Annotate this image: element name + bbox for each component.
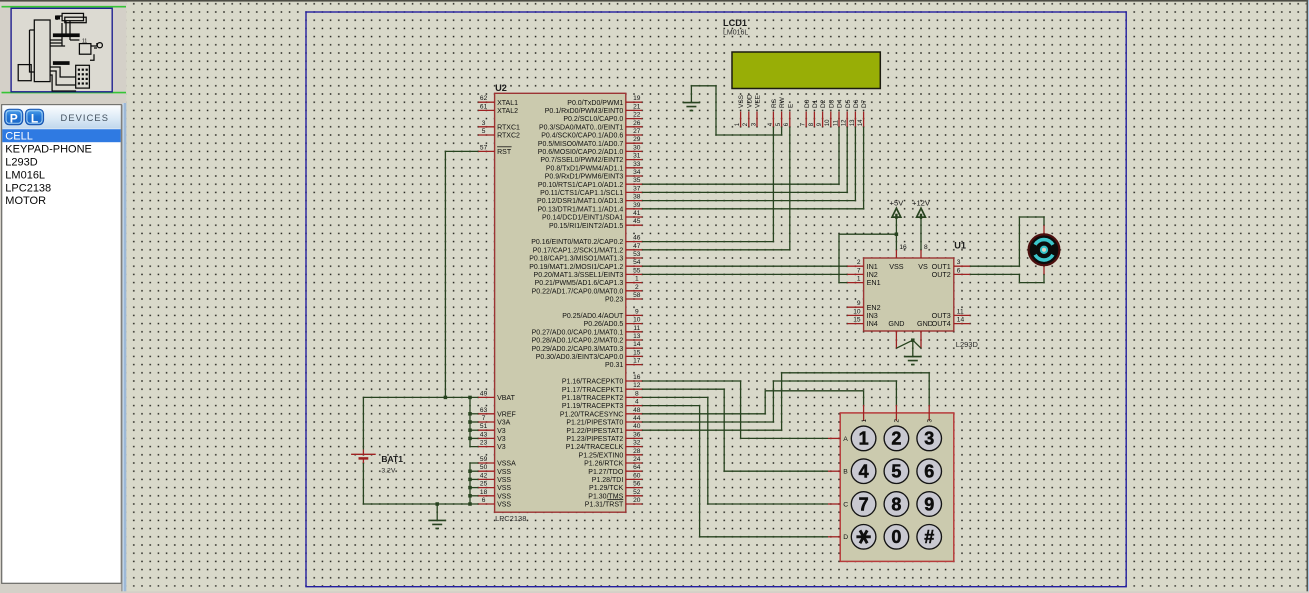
svg-text:P0.20/MAT1.3/SSEL1/EINT3: P0.20/MAT1.3/SSEL1/EINT3 [534,272,624,279]
svg-text:4: 4 [859,462,869,482]
svg-text:P1.25/EXTIN0: P1.25/EXTIN0 [579,452,624,459]
svg-text:GND: GND [888,319,904,328]
svg-text:15: 15 [853,317,861,324]
U2 pin 47 (P0.17/CAP1.2/SCK1/MAT1.2) right stub [626,249,642,251]
U2 pin 38 (P0.12/DSR1/MAT1.0/AD1.3) right stub [626,200,642,202]
svg-text:LM016L: LM016L [723,30,748,37]
keypad row pin A [828,437,840,439]
svg-text:56: 56 [633,481,641,488]
+12V power terminal [917,208,926,217]
svg-text:P0.2/SCL0/CAP0.0: P0.2/SCL0/CAP0.0 [563,116,623,123]
svg-text:16: 16 [899,244,907,251]
svg-text:34: 34 [633,169,641,176]
svg-text:KEYPAD-PHONE: KEYPAD-PHONE [5,144,92,156]
U2 pin 24 (P1.26/RTCK) right stub [626,462,642,464]
svg-text:5: 5 [891,462,901,482]
svg-text:P0.15/RI1/EINT2/AD1.5: P0.15/RI1/EINT2/AD1.5 [549,223,623,230]
U2 pin 64 (P1.27/TDO) right stub [626,470,642,472]
svg-text:D7: D7 [861,99,868,108]
U2 pin 37 (P0.11/CTS1/CAP1.1/SCL1) right stub [626,191,642,193]
svg-text:A: A [843,436,848,443]
svg-text:#: # [924,527,934,547]
svg-text:14: 14 [957,317,965,324]
U2 pin 2 (P0.22/AD1.7/CAP0.0/MAT0.0) right stub [626,290,642,292]
svg-text:LPC2138: LPC2138 [495,514,526,523]
svg-text:P0.25/AD0.4/AOUT: P0.25/AD0.4/AOUT [562,313,624,320]
U2 pin 8 (P1.18/TRACEPKT2) right stub [626,396,642,398]
svg-text:63: 63 [480,407,488,414]
U1 pin 14 (OUT4) right stub [954,323,970,325]
svg-text:14: 14 [633,341,641,348]
svg-text:U2: U2 [495,83,507,93]
battery BAT1 symbol [362,450,364,455]
U2 pin 45 (P0.15/RI1/EINT2/AD1.5) right stub [626,224,642,226]
ground symbol near LCD [683,103,700,111]
svg-text:XTAL2: XTAL2 [497,108,518,115]
svg-text:DEVICES: DEVICES [61,113,110,123]
U1 pin 1 (EN1) left stub [847,282,863,284]
svg-text:VS: VS [918,262,928,271]
svg-text:P0.31: P0.31 [605,362,623,369]
U2 pin 4 (P1.19/TRACEPKT3) right stub [626,405,642,407]
svg-text:3.2V: 3.2V [381,468,395,475]
keypad button 8 [884,492,909,517]
U1 pin 9 (EN2) left stub [847,306,863,308]
U2 pin 1 (P0.21/PWM5/AD1.6/CAP1.3) right stub [626,282,642,284]
svg-text:D: D [843,534,848,541]
keypad row pin B [828,470,840,472]
LCD1 pin 9 (D2) [822,112,824,127]
svg-text:RTXC1: RTXC1 [497,124,520,131]
U2 pin 23 (V3) left stub [478,446,494,448]
svg-text:P0.23: P0.23 [605,297,623,304]
svg-text:11: 11 [633,325,640,332]
svg-text:P0.30/AD0.3/EINT3/CAP0.0: P0.30/AD0.3/EINT3/CAP0.0 [536,354,624,361]
U2 pin 29 (P0.5/MISO0/MAT0.1/AD0.7) right stub [626,142,642,144]
keypad button 4 [851,459,876,484]
motor pin stub bottom [1043,266,1045,274]
svg-text:P1.19/TRACEPKT3: P1.19/TRACEPKT3 [562,403,624,410]
U2 pin 6 (VSS) left stub [478,503,494,505]
svg-text:22: 22 [633,112,641,119]
svg-text:RST: RST [497,149,512,156]
svg-text:VSSA: VSSA [497,461,516,468]
svg-text:E: E [787,103,794,108]
svg-text:18: 18 [480,489,488,496]
svg-text:6: 6 [957,267,961,274]
svg-text:15: 15 [633,349,641,356]
U2 pin 17 (P0.31) right stub [626,364,642,366]
keypad KEYPAD-PHONE body [840,413,954,562]
svg-text:V3: V3 [497,444,506,451]
selected device CELL [2,129,120,142]
svg-text:55: 55 [633,267,641,274]
U2 pin 32 (P1.24/TRACECLK) right stub [626,446,642,448]
svg-text:24: 24 [633,456,641,463]
LCD1 pin 3 (VEE) [756,112,758,127]
wire LCD RS to U2 P0.16 [642,127,773,242]
vertical bus wire VSSA/VSS [470,463,478,504]
wire U2 P1.17 to keypad row B [642,389,828,471]
P (pick device) button [5,109,23,125]
svg-text:P0.13/DTR1/MAT1.1/AD1.4: P0.13/DTR1/MAT1.1/AD1.4 [537,206,623,213]
wire LCD RW to ground [691,86,781,135]
LCD1 pin 10 (D3) [830,112,832,127]
svg-text:LM016L: LM016L [5,169,45,181]
svg-text:5: 5 [482,128,486,135]
svg-text:8: 8 [635,390,639,397]
svg-text:P0.10/RTS1/CAP1.0/AD1.2: P0.10/RTS1/CAP1.0/AD1.2 [538,182,624,189]
wire U2 P1.21 to keypad column 2 [642,381,896,422]
U2 pin 61 (XTAL2) left stub [478,109,494,111]
svg-text:11: 11 [82,39,87,45]
U2 pin 35 (P0.10/RTS1/CAP1.0/AD1.2) right stub [626,183,642,185]
U2 pin 54 (P0.19/MAT1.2/MOSI1/CAP1.2) right stub [626,265,642,267]
svg-text:U1: U1 [954,241,966,251]
svg-text:61: 61 [480,103,488,110]
LCD1 pin 14 (D7) [863,112,865,127]
U2 pin 51 (V3) left stub [478,429,494,431]
svg-text:GND: GND [917,319,933,328]
svg-text:LCD1: LCD1 [723,18,747,28]
U1 pin 7 (IN2) left stub [847,273,863,275]
U2 pin 42 (VSS) left stub [478,478,494,480]
svg-text:P0.28/AD0.1/CAP0.2/MAT0.2: P0.28/AD0.1/CAP0.2/MAT0.2 [532,338,624,345]
U2 pin 25 (VSS) left stub [478,487,494,489]
U2 pin 56 (P1.29/TCK) right stub [626,487,642,489]
svg-text:16: 16 [633,374,641,381]
bus branch wire [470,495,478,497]
top window edge [0,0,1309,2]
svg-text:40: 40 [633,423,641,430]
svg-text:P0.19/MAT1.2/MOSI1/CAP1.2: P0.19/MAT1.2/MOSI1/CAP1.2 [529,264,623,271]
svg-text:25: 25 [480,481,488,488]
svg-text:9: 9 [924,494,934,514]
svg-text:OUT4: OUT4 [932,319,951,328]
svg-text:P0.3/SDA0/MAT0..0/EINT1: P0.3/SDA0/MAT0..0/EINT1 [539,124,623,131]
U2 pin 62 (XTAL1) left stub [478,101,494,103]
svg-text:OUT2: OUT2 [932,270,951,279]
wire U2 P1.18 to keypad row C [642,397,828,504]
motor body [1029,234,1060,265]
svg-text:VSS: VSS [497,493,511,500]
U1 pin 11 (OUT3) right stub [954,314,970,316]
wire +5V to U1 VSS pin [895,217,897,250]
wire U2 RST to battery net [445,151,478,397]
svg-text:D4: D4 [837,99,844,108]
keypad row pin C [828,503,840,505]
U2 pin 11 (P0.27/AD0.0/CAP0.1/MAT0.1) right stub [626,331,642,333]
svg-text:21: 21 [633,103,641,110]
svg-text:P0.6/MOSI0/CAP0.2/AD1.0: P0.6/MOSI0/CAP0.2/AD1.0 [538,149,624,156]
bus branch wire [470,429,478,431]
svg-text:D5: D5 [845,99,852,108]
U2 pin 53 (P0.18/CAP1.3/MISO1/MAT1.3) right stub [626,257,642,259]
svg-text:IN4: IN4 [867,319,878,328]
junction dot ground tap [435,502,439,506]
svg-text:45: 45 [633,218,641,225]
svg-text:P0.26/AD0.5: P0.26/AD0.5 [584,321,624,328]
svg-text:37: 37 [633,185,641,192]
svg-text:47: 47 [633,243,641,250]
svg-text:P1.17/TRACEPKT1: P1.17/TRACEPKT1 [562,387,624,394]
svg-text:9: 9 [857,300,861,307]
svg-text:23: 23 [480,440,488,447]
U1 pin 3 (OUT1) right stub [954,265,970,267]
svg-text:3: 3 [924,429,934,449]
svg-text:2: 2 [894,419,901,423]
keypad column pin 3 [928,405,930,421]
svg-text:EN1: EN1 [867,278,881,287]
wire U1 OUT1 to motor top [970,217,1044,266]
svg-text:6: 6 [482,497,486,504]
svg-text:59: 59 [480,456,488,463]
svg-text:P0.5/MISO0/MAT0.1/AD0.7: P0.5/MISO0/MAT0.1/AD0.7 [538,141,624,148]
U2 pin 40 (P1.22/PIPESTAT1) right stub [626,429,642,431]
svg-text:P1.23/PIPESTAT2: P1.23/PIPESTAT2 [566,436,623,443]
svg-text:+12V: +12V [912,199,931,208]
svg-text:V3A: V3A [497,420,511,427]
svg-text:35: 35 [633,177,641,184]
junction dot VSS bus [468,502,472,506]
svg-text:RTXC2: RTXC2 [497,133,520,140]
+5V power terminal [892,208,901,217]
U2 pin 31 (P0.7/SSEL0/PWM2/EINT2) right stub [626,159,642,161]
svg-text:33: 33 [633,161,641,168]
object selector list box [2,105,122,584]
svg-text:46: 46 [633,235,641,242]
LCD1 pin 4 (RS) [772,112,774,127]
svg-text:44: 44 [633,415,641,422]
LCD1 pin 2 (VDD) [748,112,750,127]
svg-text:LPC2138: LPC2138 [5,182,51,194]
svg-text:MOTOR: MOTOR [5,195,46,207]
svg-text:38: 38 [633,194,641,201]
motor driver U1 L293D body [864,258,954,331]
U2 pin 3 (RTXC1) left stub [478,126,494,128]
svg-text:29: 29 [633,136,641,143]
ground symbol below battery net [436,504,438,520]
svg-text:48: 48 [633,407,641,414]
LCD1 pin 7 (D0) [805,112,807,127]
svg-text:42: 42 [480,472,488,479]
keypad button 0 [884,525,909,550]
svg-text:20: 20 [633,497,641,504]
keypad button # [917,525,942,550]
svg-text:8: 8 [891,494,901,514]
wire U2 P1.19 to keypad row D [642,406,828,537]
svg-text:VSS: VSS [497,485,511,492]
svg-text:C: C [843,501,848,508]
svg-text:P: P [10,111,18,125]
U2 pin 41 (P0.14/DCD1/EINT1/SDA1) right stub [626,216,642,218]
U2 pin 50 (VSS) left stub [478,470,494,472]
U2 pin 59 (VSSA) left stub [478,462,494,464]
svg-text:19: 19 [633,95,641,102]
keypad button 6 [917,459,942,484]
svg-text:D3: D3 [828,99,835,108]
motor pin stub top [1043,225,1045,233]
U2 pin 22 (P0.2/SCL0/CAP0.0) right stub [626,118,642,120]
bus branch wire [470,413,478,415]
svg-text:9: 9 [635,308,639,315]
U1 GND pin bottom stub 2 [920,331,922,348]
LCD1 pin 11 (D4) [838,112,840,127]
U2 pin 46 (P0.16/EINT0/MAT0.2/CAP0.2) right stub [626,241,642,243]
svg-text:P1.20/TRACESYNC: P1.20/TRACESYNC [560,411,623,418]
svg-text:P1.27/TDO: P1.27/TDO [588,469,624,476]
U1 pin 6 (OUT2) right stub [954,273,970,275]
svg-text:2: 2 [891,429,901,449]
svg-text:32: 32 [633,440,641,447]
svg-text:P0.21/PWM5/AD1.6/CAP1.3: P0.21/PWM5/AD1.6/CAP1.3 [535,280,624,287]
svg-text:P0.8/TxD1/PWM4/AD1.1: P0.8/TxD1/PWM4/AD1.1 [546,165,624,172]
wire battery+ lead [362,397,364,449]
svg-text:10: 10 [825,119,831,126]
vertical bus wire VREF/V3A/V3 [470,397,478,446]
svg-text:13: 13 [850,119,856,126]
wire +12V to U1 VS pin [920,217,922,250]
keypad button * [851,525,876,550]
svg-text:53: 53 [633,251,641,258]
U1 pin 15 (IN4) left stub [847,323,863,325]
U2 pin 57 (RST) left stub [478,150,494,152]
svg-text:VSS: VSS [738,94,745,108]
keypad column pin 2 [895,405,897,421]
svg-text:RS: RS [771,98,778,108]
svg-text:B: B [843,469,848,476]
svg-text:VSS: VSS [497,477,511,484]
LCD1 pin 8 (D1) [813,112,815,127]
svg-text:BAT1: BAT1 [381,454,403,464]
miniature schematic in preview [18,13,102,91]
svg-text:64: 64 [633,464,641,471]
svg-text:2: 2 [857,259,861,266]
svg-text:50: 50 [480,464,488,471]
svg-text:12: 12 [842,119,848,126]
U2 pin 52 (P1.30/TMS) right stub [626,495,642,497]
U2 pin 30 (P0.6/MOSI0/CAP0.2/AD1.0) right stub [626,150,642,152]
svg-text:P1.31/TRST: P1.31/TRST [585,502,624,509]
svg-text:P0.11/CTS1/CAP1.1/SCL1: P0.11/CTS1/CAP1.1/SCL1 [540,190,623,197]
bus branch wire [470,437,478,439]
bus branch wire [470,421,478,423]
svg-text:3: 3 [482,120,486,127]
LCD1 pin 12 (D5) [846,112,848,127]
sidebar splitter [121,105,122,593]
wire U2 P0.19 to U1 IN1 [642,265,847,267]
svg-text:VSS: VSS [889,262,904,271]
bus branch wire [470,478,478,480]
U1 GND pin bottom stub 1 [895,331,897,348]
svg-text:52: 52 [633,489,641,496]
U2 pin 21 (P0.1/RxD0/PWM3/EINT0) right stub [626,109,642,111]
keypad button 1 [851,426,876,451]
svg-text:58: 58 [633,292,641,299]
schematic sheet border frame [306,12,1126,587]
svg-text:P1.24/TRACECLK: P1.24/TRACECLK [566,444,624,451]
keypad button 3 [917,426,942,451]
wire U1 GND pins to ground junction [896,340,921,348]
U2 pin 18 (VSS) left stub [478,495,494,497]
ground symbol below U1 [904,357,921,365]
U2 pin 39 (P0.13/DTR1/MAT1.1/AD1.4) right stub [626,208,642,210]
svg-text:4: 4 [635,399,639,406]
keypad button 9 [917,492,942,517]
junction dot VBAT bus [468,396,472,400]
wire U2 P1.22 to keypad column 3 [642,373,929,430]
svg-text:CELL: CELL [5,131,33,143]
svg-text:3: 3 [926,419,933,423]
U2 pin 13 (P0.28/AD0.1/CAP0.2/MAT0.2) right stub [626,339,642,341]
U2 pin 43 (V3) left stub [478,437,494,439]
U2 pin 33 (P0.8/TxD1/PWM4/AD1.1) right stub [626,167,642,169]
wire battery- to U2 VSS [363,463,478,504]
bus branch wire [470,470,478,472]
bus branch wire [470,487,478,489]
bottom window edge [0,591,1309,593]
U1 pin 8 (VS) top stub [920,250,922,258]
svg-text:43: 43 [480,431,488,438]
svg-text:1: 1 [861,419,868,423]
U2 pin 55 (P0.20/MAT1.3/SSEL1/EINT3) right stub [626,273,642,275]
svg-text:14: 14 [858,119,864,126]
LCD1 pin 13 (D6) [854,112,856,127]
wire U2 P1.16 to keypad row A [642,381,828,438]
svg-text:L: L [31,111,38,125]
LCD1 pin 5 (RW) [781,112,783,127]
svg-text:1: 1 [859,429,869,449]
svg-text:P1.22/PIPESTAT1: P1.22/PIPESTAT1 [566,428,623,435]
U2 pin 16 (P1.16/TRACEPKT0) right stub [626,380,642,382]
U2 pin 26 (P0.3/SDA0/MAT0..0/EINT1) right stub [626,126,642,128]
svg-text:0: 0 [891,527,901,547]
U2 pin 27 (P0.4/SCK0/CAP0.1/AD0.6) right stub [626,134,642,136]
U2 pin 7 (V3A) left stub [478,421,494,423]
U2 pin 36 (P1.23/PIPESTAT2) right stub [626,437,642,439]
svg-text:D6: D6 [853,99,860,108]
wire LCD D7 to U2 P0.13 [642,127,863,209]
svg-text:D1: D1 [812,99,819,108]
svg-text:P0.27/AD0.0/CAP0.1/MAT0.1: P0.27/AD0.0/CAP0.1/MAT0.1 [532,329,624,336]
svg-text:1: 1 [635,276,639,283]
svg-text:P1.16/TRACEPKT0: P1.16/TRACEPKT0 [562,379,624,386]
svg-text:L293D: L293D [5,157,37,169]
svg-text:57: 57 [480,144,488,151]
LCD1 pin 6 (E) [789,112,791,127]
svg-text:P0.4/SCK0/CAP0.1/AD0.6: P0.4/SCK0/CAP0.1/AD0.6 [541,133,623,140]
svg-text:P0.17/CAP1.2/SCK1/MAT1.2: P0.17/CAP1.2/SCK1/MAT1.2 [533,247,624,254]
keypad button 2 [884,426,909,451]
svg-text:VSS: VSS [497,469,511,476]
U2 pin 44 (P1.21/PIPESTAT0) right stub [626,421,642,423]
svg-text:P0.22/AD1.7/CAP0.0/MAT0.0: P0.22/AD1.7/CAP0.0/MAT0.0 [532,288,624,295]
svg-text:D2: D2 [820,99,827,108]
svg-text:39: 39 [633,202,641,209]
svg-text:VEE: VEE [755,94,762,108]
keypad column pin 1 [863,405,865,421]
U1 pin 16 (VSS) top stub [895,250,897,258]
U2 pin 58 (P0.23) right stub [626,298,642,300]
svg-text:V3: V3 [497,436,506,443]
U2 pin 9 (P0.25/AD0.4/AOUT) right stub [626,314,642,316]
U2 pin 12 (P1.17/TRACEPKT1) right stub [626,388,642,390]
svg-text:60: 60 [633,472,641,479]
svg-text:P0.18/CAP1.3/MISO1/MAT1.3: P0.18/CAP1.3/MISO1/MAT1.3 [529,256,623,263]
wire LCD D6 to U2 P0.12 [642,127,855,201]
svg-text:P1.18/TRACEPKT2: P1.18/TRACEPKT2 [562,395,624,402]
svg-text:P0.1/RxD0/PWM3/EINT0: P0.1/RxD0/PWM3/EINT0 [545,108,624,115]
